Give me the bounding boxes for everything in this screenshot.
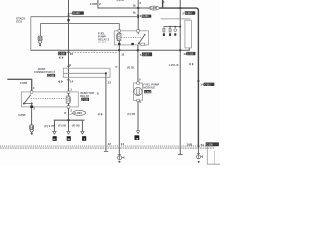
svg-text:(F) 0B: (F) 0B [127,112,135,116]
connector label C-303 pin 1 [142,15,152,18]
fp module box [133,83,142,100]
svg-text:5: 5 [139,77,141,81]
wire V8 x105.9 [105,73,107,151]
svg-text:2: 2 [33,107,35,111]
junction dots on H4 [118,49,120,51]
svg-text:P: P [116,65,118,69]
svg-text:5: 5 [140,53,142,57]
drop T-bars [53,130,57,132]
svg-text:1B: 1B [136,138,139,140]
svg-text:C-308: C-308 [58,54,65,56]
svg-text:4: 4 [139,100,141,104]
connector label C-310 pin 16 [186,52,195,55]
junction dots bus top right [169,26,171,28]
ground bus [54,119,85,121]
injector relay dashed line [31,98,66,100]
right corner step bottom [207,147,220,164]
fp module pin ticks [137,82,140,84]
svg-text:ECU: ECU [16,20,22,24]
FP relay switch [138,31,146,44]
ETACS internal transistor symbol [38,36,42,46]
wire V5 x138 down [137,45,139,83]
wire W1 top [98,0,149,8]
svg-text:51: 51 [201,143,205,147]
condenser symbol left [30,125,34,135]
faint vertical bottom right [213,151,215,165]
circle glyph bottom x119 [118,155,124,163]
svg-text:(F) BL: (F) BL [127,65,135,69]
connector label C-123 pin 4 [72,11,84,14]
bus H7 [164,26,181,28]
junction dot jc stripe [105,72,107,74]
svg-text:C-304: C-304 [74,111,82,115]
connector label C-313 pin 2 [185,11,196,15]
svg-text:14: 14 [70,80,74,84]
svg-text:C-308: C-308 [206,145,213,147]
fp module pump symbol [134,87,142,95]
injector relay pin squares [30,91,33,93]
wire V5 below module [137,100,139,130]
ground tip under fp module wire [136,130,139,133]
dashed double connector line bottom [0,145,214,147]
FP relay coil [116,33,121,45]
shield icons [58,56,193,115]
svg-text:1: 1 [163,0,165,4]
pin bar above W2 on V1 [68,13,70,17]
V8 end tick [104,150,108,152]
svg-text:13: 13 [108,81,112,85]
svg-text:5: 5 [69,63,71,67]
FP relay dashed actuation line [121,36,141,38]
svg-text:4: 4 [33,86,35,90]
svg-text:C-305: C-305 [150,6,158,10]
ground drop 3 [81,120,83,131]
ground drop 1 [54,120,56,131]
pin square W3 into relay top [118,30,121,32]
svg-text:0.85B: 0.85B [18,113,25,117]
svg-text:(C-317): (C-317) [98,41,107,44]
injector relay coil [66,96,71,103]
wire V1 x68.5 [68,0,70,120]
svg-text:(F) 0.7B: (F) 0.7B [44,124,54,128]
svg-text:14: 14 [121,142,125,146]
connector label C-308 [58,52,66,56]
wire V13 tail [197,148,199,156]
FP relay box [114,31,148,45]
wire W3 internal [41,24,120,37]
svg-text:14: 14 [200,83,204,87]
dashed C-308 line [67,52,118,54]
svg-text:0.85B: 0.85B [90,2,97,6]
connector label C-48 (joint connector) [47,74,55,77]
svg-text:0.85B: 0.85B [117,0,124,2]
injector relay switch [23,95,33,107]
junction dot below W2 on V1 [67,19,70,22]
svg-text:B: B [97,91,99,95]
circle glyph bottom x198 [197,153,203,162]
junction dot W1/V5 [137,7,139,9]
connector label C-308 pin 51 (bottom) [206,142,219,146]
vertical V12 x180.2 [179,0,181,148]
svg-text:C-123: C-123 [73,13,80,15]
svg-text:BL: BL [133,4,137,8]
svg-text:11: 11 [121,53,125,57]
thick power wire [159,8,198,148]
connector label C-312 (fuel pump module) [144,90,151,93]
pin tick V1 below JC box [67,79,69,80]
three stubs cluster top right [163,27,177,32]
svg-text:C-312: C-312 [204,84,211,86]
svg-text:1: 1 [70,88,72,92]
svg-text:2: 2 [99,2,101,6]
svg-text:0.85B: 0.85B [20,81,27,85]
svg-text:C-310: C-310 [187,54,194,56]
ETACS-ECU box left edge [30,17,32,51]
junction dot right x198 [197,80,199,82]
svg-text:16: 16 [183,52,187,56]
joint connector box [63,68,110,77]
svg-text:2: 2 [182,11,184,15]
pin tick V1 above JC box [67,66,69,67]
svg-text:12: 12 [108,142,112,146]
connector label C-317 pin 5 [142,52,152,56]
oval C-304 [73,110,86,115]
long line H4 ETACS bottom [31,48,190,50]
V12 tail below dashed [179,148,181,154]
thick stub up [162,0,164,8]
svg-text:MODULE: MODULE [143,86,155,90]
injector relay box [21,92,78,107]
svg-text:(F) 0B: (F) 0B [58,123,66,127]
svg-text:4: 4 [70,11,72,15]
svg-text:1.25L-B: 1.25L-B [169,63,179,67]
svg-text:BL: BL [133,10,137,14]
svg-text:2B: 2B [67,139,70,141]
svg-text:C-235: C-235 [82,99,89,101]
svg-text:(C-08): (C-08) [48,75,55,77]
wire H8 left feed [7,79,31,92]
svg-text:3: 3 [139,1,141,5]
fuse box right [185,20,192,48]
svg-text:B: B [64,111,66,115]
pin tick V1 at C-308 dashed [68,51,70,53]
crossing dot thick line [179,7,181,9]
T-bar terminal [178,154,183,156]
FP relay pin squares [137,30,140,32]
dark connector label boxes [47,11,219,146]
svg-text:CONNECTOR (3: CONNECTOR (3 [34,70,55,74]
svg-text:C-312: C-312 [145,92,152,94]
svg-text:2: 2 [70,108,72,112]
svg-text:RELAY: RELAY [80,94,89,98]
oval C-305 [149,6,160,10]
junction dot ground bus [67,119,69,121]
connector label C-312 pin 14 [204,83,215,86]
connector label C-235 (injector relay) [81,98,89,101]
svg-text:C-303: C-303 [142,16,149,18]
wire V6 x119.3 [118,31,120,156]
black ground label squares [53,136,57,141]
wire V5 x138.2 top [137,0,139,31]
svg-text:1: 1 [140,14,142,18]
svg-text:C-317: C-317 [143,55,150,57]
svg-text:(F) 0B: (F) 0B [72,123,80,127]
wire V7 below box [31,107,33,125]
H6 line [161,18,191,20]
svg-text:C-313: C-313 [185,13,192,15]
jc stripe [64,72,106,74]
wire W2 ETACS top edge [31,16,137,18]
svg-text:10: 10 [70,52,74,56]
svg-text:10B: 10B [187,143,193,147]
pin square W2 end [137,15,139,19]
ground drop 2 (continuation of V1) [68,120,70,131]
